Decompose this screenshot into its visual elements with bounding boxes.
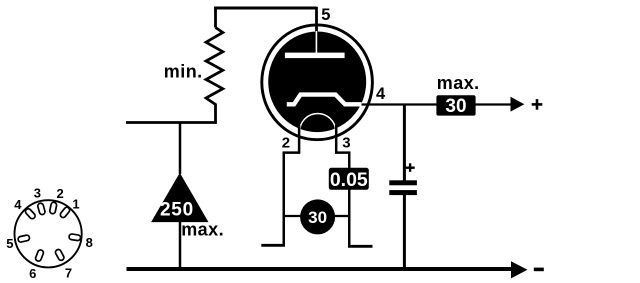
svg-text:min.: min. — [164, 62, 203, 82]
svg-text:1: 1 — [72, 196, 79, 211]
svg-text:0.05: 0.05 — [330, 169, 368, 191]
svg-text:3: 3 — [34, 186, 41, 201]
svg-text:2: 2 — [282, 134, 290, 151]
svg-text:max.: max. — [181, 220, 224, 240]
svg-text:2: 2 — [57, 186, 64, 201]
svg-text:4: 4 — [376, 85, 386, 103]
svg-text:5: 5 — [6, 236, 13, 251]
svg-text:30: 30 — [308, 208, 327, 227]
svg-text:8: 8 — [86, 235, 93, 250]
svg-text:250: 250 — [160, 200, 194, 221]
svg-text:6: 6 — [29, 266, 36, 281]
svg-text:7: 7 — [65, 266, 72, 281]
svg-text:max.: max. — [437, 73, 480, 93]
svg-text:4: 4 — [14, 197, 22, 212]
svg-text:3: 3 — [342, 134, 350, 151]
svg-text:30: 30 — [445, 96, 466, 117]
svg-text:5: 5 — [321, 6, 330, 24]
